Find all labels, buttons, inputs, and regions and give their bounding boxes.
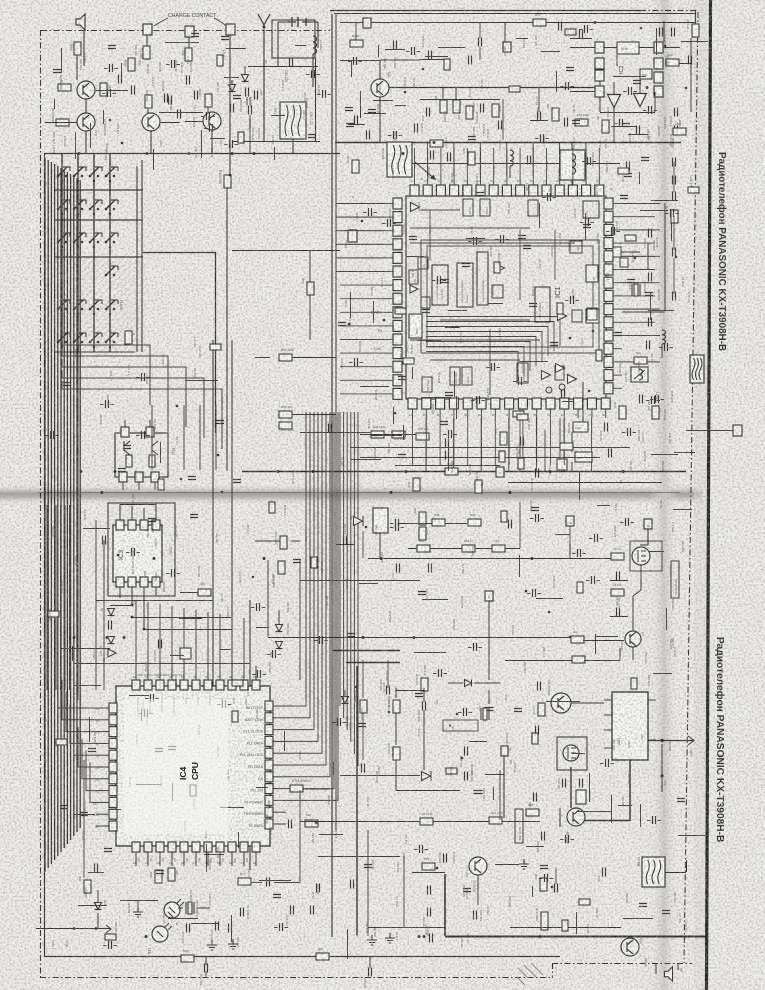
capacitor (texture z2k37): [492, 363, 495, 371]
corner hatch marks: [517, 963, 543, 985]
resistor R12: [278, 561, 285, 574]
capacitor C121: [429, 564, 432, 573]
fold seam line: [38, 492, 680, 494]
IC1 left feed full 8: [340, 298, 384, 300]
wire cluster top: [420, 99, 500, 101]
junction dot (z4k14): [217, 454, 220, 457]
IC1 box 10: [421, 297, 430, 308]
IC4 top pin 4: [168, 680, 176, 690]
ground G6: [385, 933, 395, 943]
left margin bus wire 4: [54, 164, 56, 860]
wire row y435: [360, 434, 416, 436]
IC1 internal wire 9: [554, 230, 556, 280]
IC1 bottom out wire 4: [508, 418, 510, 471]
wire rf h36: [355, 22, 357, 40]
IC1 block COMP: [555, 366, 564, 380]
wire stub v (z2k2): [350, 292, 352, 318]
svg-text:IC4: IC4: [178, 767, 188, 781]
capacitor (texture z5k34): [592, 576, 595, 584]
wire stub h (z6k25): [129, 695, 149, 697]
resistor R100k: [224, 175, 231, 188]
PN2 pin 1: [119, 472, 127, 482]
IC4 bottom pin 12: [132, 842, 140, 852]
pin box P2: [348, 230, 357, 242]
capacitor C36: [528, 156, 531, 165]
IC1 bottom out wire 3: [480, 418, 482, 471]
capacitor C56: [534, 793, 537, 802]
IC4 right wire 2: [286, 412, 310, 718]
capacitor (texture z1k46b): [622, 124, 630, 127]
capacitor (texture z7k26): [653, 816, 656, 824]
capacitor C74: [187, 924, 190, 933]
IC1 block DTC2: [463, 199, 473, 216]
wire right v674: [673, 162, 675, 192]
pin box P9: [733, 425, 742, 436]
keypad switch S12: [105, 241, 108, 244]
IC1 left pin 22: [393, 280, 402, 291]
IC4 left pin 27: [109, 750, 117, 760]
keypad switch S8: [105, 208, 108, 211]
pin box P10: [566, 516, 574, 526]
junction dot (z6k7): [315, 822, 318, 825]
IC4 right wire 5: [286, 412, 322, 753]
resistor R116: [540, 878, 547, 891]
wire stub h (z1k3): [541, 51, 560, 53]
PN2 wires top: [125, 420, 150, 427]
wire ic2 left pin: [570, 91, 595, 93]
crystal block X02: [560, 150, 585, 180]
IC1 left pin 26: [393, 334, 402, 345]
keypad switch S9: [57, 241, 60, 244]
keypad switch S14: [73, 308, 76, 311]
resistor R57b: [279, 422, 292, 429]
capacitor C110: [673, 192, 676, 201]
wire stub v (z7k41): [333, 762, 335, 775]
wire fold h637: [268, 637, 571, 639]
junction dot (z7k19): [388, 711, 391, 714]
IC1 top feed wire 4: [506, 142, 508, 176]
wire stub h (z7k10): [546, 701, 580, 703]
resistor R110: [500, 432, 507, 445]
wire bottom stub: [205, 957, 207, 965]
bus junction dot 15: [402, 152, 405, 155]
IC4 top pin 6: [192, 680, 200, 690]
wire right h310: [648, 310, 674, 312]
battery box right wire: [315, 58, 317, 142]
wire stub v (z7k4): [493, 787, 495, 800]
IC1 top feed full 13: [572, 148, 574, 176]
modulator triangle 3: [568, 375, 577, 384]
keypad switch S7: [89, 208, 92, 211]
IC1 left feed full 5: [340, 257, 384, 259]
keypad switch S2: [73, 175, 76, 178]
wire stub v (z4k1): [80, 509, 82, 521]
wire q8 emitter: [477, 875, 479, 905]
resistor (texture z2k15): [596, 350, 602, 361]
IC1 internal bus wire 7: [426, 347, 524, 377]
CPU top feed wire 9: [231, 616, 233, 666]
IC1 top pin 4: [450, 185, 459, 196]
page margin grey strip: [694, 0, 707, 990]
filter block CF1: [280, 102, 306, 139]
IC3 pin 5: [116, 577, 124, 587]
wire stub v (z1k17): [360, 91, 362, 118]
IC1 buffer triangle: [411, 203, 420, 212]
zener D12: [276, 642, 283, 649]
block L30: [557, 459, 567, 470]
right page top border corner: [695, 11, 697, 30]
bus junction dot 33: [263, 557, 266, 560]
resistor R42: [185, 48, 192, 61]
resistor (texture z2k25): [403, 358, 414, 364]
junction dot (z4k3): [221, 491, 224, 494]
resistor R61: [440, 100, 447, 113]
resistor (texture z1k6): [565, 29, 576, 35]
IC1 right out wire 2: [622, 229, 660, 231]
ground G3: [133, 907, 143, 917]
capacitor (texture z7k32b): [364, 865, 372, 868]
IC1 top pin 8: [502, 185, 511, 196]
aux bus y457: [360, 457, 600, 459]
keypad row wire 3: [62, 359, 186, 427]
IC1 top pin 3: [436, 185, 445, 196]
capacitor (texture z7k46): [420, 845, 423, 853]
wire stub v (z5k17): [666, 608, 668, 630]
capacitor (texture z3k28): [656, 395, 659, 403]
IC1 top pin 5: [463, 185, 472, 196]
wire left cluster2: [292, 414, 336, 416]
wire mesh v560: [559, 418, 561, 460]
IC1 left feed wire 3: [336, 230, 384, 232]
IC1 bottom drop full 7: [494, 418, 496, 465]
resistor R2k2: [571, 636, 584, 643]
wire bm v370: [369, 957, 371, 968]
IC1 bottom pin 60: [601, 398, 610, 409]
wire stub h (z0k6): [271, 115, 285, 117]
IC1 left pin 20: [393, 252, 402, 263]
capacitor (texture z4k35): [257, 603, 260, 611]
battery wires: [278, 22, 318, 66]
wire stub v (z7k18): [576, 912, 578, 934]
capacitor C107: [394, 41, 397, 50]
resistor R104: [350, 40, 363, 47]
IC1 bottom pin 47: [422, 398, 431, 409]
wire mesh v545: [544, 430, 546, 472]
IC1 block phase det: [492, 285, 503, 298]
wire stub v (z0k22): [121, 63, 123, 79]
capacitor (texture z3k9): [628, 428, 631, 436]
capacitor (texture z1k10): [566, 82, 569, 90]
junction dot (z4k19): [117, 554, 120, 557]
IC1 top feed wire 2: [453, 142, 455, 176]
IC4 right wire 1: [286, 412, 306, 706]
capacitor (texture z4k27b): [118, 469, 126, 472]
capacitor C63: [132, 86, 135, 95]
left page v-wire x104: [103, 540, 105, 690]
capacitor C68: [169, 96, 172, 105]
capacitor C112: [673, 292, 676, 301]
junction dot (z1k23): [422, 68, 425, 71]
IC3 junction dots: [131, 604, 134, 607]
IC1 right out wire 6: [622, 335, 660, 337]
IC1 bottom pin 56: [546, 398, 555, 409]
IC1 left feed full 9: [340, 311, 384, 313]
capacitor C27: [429, 51, 432, 60]
wire stub h (z5k11): [422, 599, 448, 601]
wire bl h882: [252, 882, 262, 884]
wire right area v2: [664, 203, 666, 310]
capacitor (texture z2k28b): [476, 193, 484, 196]
keypad column line 2: [77, 153, 79, 352]
MOSFET Q5: [632, 547, 650, 565]
IC1 left feed full 14: [340, 379, 384, 381]
IC1 bottom drop full 6: [481, 418, 483, 465]
junction dot (z7k8): [436, 867, 439, 870]
IC1 left pin 16: [393, 198, 402, 209]
IC1 right pin 38: [604, 290, 613, 301]
junction dot (z3k23): [675, 256, 678, 259]
IC4 top pin 9: [228, 680, 236, 690]
capacitor C88: [465, 772, 468, 781]
wire stub h (z1k31): [438, 47, 465, 49]
IC1 left feed full 1: [340, 203, 384, 205]
capacitor (texture z6k3b): [156, 871, 164, 874]
capacitor (texture z2k13b): [583, 225, 591, 228]
vertical wire x213: [212, 340, 214, 690]
wire stub v (z7k11): [589, 773, 591, 802]
outer dash-dot border left: [40, 30, 42, 977]
IC1 right out wire 4: [622, 282, 660, 284]
vertical wire x368: [367, 830, 369, 936]
capacitor C127: [603, 868, 606, 877]
capacitor (texture z6k36b): [273, 895, 281, 898]
wire bottom h927: [510, 927, 621, 929]
IC2 pin b: [654, 42, 663, 53]
keypad switch S1: [57, 175, 60, 178]
wire os h775: [340, 775, 420, 777]
left margin bus wire 3: [50, 162, 52, 864]
filter arrow: [415, 162, 436, 180]
IC4 right wire 9: [286, 412, 338, 800]
capacitor C94: [428, 886, 431, 895]
PN2 pin 2: [135, 472, 143, 482]
CPU top feed wire 4: [171, 606, 173, 666]
transistor Q2: [371, 79, 389, 97]
wire stub h (z5k5): [596, 636, 618, 638]
left riser wire 4: [199, 405, 201, 470]
IC4 top pin 10: [240, 680, 248, 690]
wire rf v539: [538, 88, 540, 112]
IC1 bottom drop full 2: [425, 418, 427, 465]
resistor R-KTM: [290, 785, 303, 792]
wire stub v (z1k1): [351, 61, 353, 77]
capacitor C93: [444, 854, 447, 863]
resistor (texture z3k13): [618, 168, 629, 174]
IC1 internal bus wire 6: [426, 342, 530, 372]
IC4 bottom pin 13: [144, 842, 152, 852]
keypad frame line B: [141, 160, 143, 352]
wire stub h (z4k29): [83, 528, 110, 530]
capacitor C34: [448, 153, 451, 162]
capacitor C30: [660, 28, 663, 37]
IC1 right out wire 7: [622, 361, 660, 363]
transistor Q14: [203, 112, 221, 130]
test wire TP: [36, 928, 110, 930]
capacitor (texture z4k5): [142, 373, 145, 381]
IC4 top pin 8: [216, 680, 224, 690]
wavy filter TA31: [690, 355, 704, 383]
left bus lower wire 5: [64, 505, 66, 690]
IC1 block DTC1: [480, 199, 490, 216]
IC1 inner shield rect: [421, 240, 599, 353]
IC1 block HYB MUTE: [517, 363, 528, 383]
pin box P24: [644, 519, 652, 529]
wire left cluster: [292, 357, 336, 359]
IC1 left feed wire 6: [336, 271, 384, 273]
resistor R12k: [541, 912, 548, 930]
wire stub h (z4k18): [185, 380, 218, 382]
capacitor C119: [344, 536, 347, 545]
capacitor (texture z7k15): [464, 708, 467, 716]
capacitor (texture z5k29): [626, 518, 629, 526]
IC1 top feed wire 6: [559, 142, 561, 176]
page border bus A: [331, 14, 333, 937]
diode D7: [108, 609, 115, 616]
wire mesh h465: [395, 465, 500, 467]
resistor (texture z0k16): [217, 55, 223, 66]
test point arrow: [106, 925, 111, 933]
wire stub h (z6k9): [319, 834, 343, 836]
resistor R87: [58, 84, 71, 91]
capacitor C32: [481, 104, 484, 113]
IC1 top feed wire 1: [427, 142, 429, 176]
keypad row wire 5: [62, 381, 222, 449]
IC1 top feed full 11: [546, 148, 548, 176]
wire R100 down: [226, 188, 228, 471]
resistor R15: [420, 818, 433, 825]
capacitor (texture z4k6): [172, 569, 175, 577]
keypad row wire 4: [62, 370, 204, 438]
pin box S2: [485, 591, 493, 601]
left bus lower wire 4: [60, 505, 62, 690]
capacitor (texture z5k25): [595, 534, 598, 542]
diode D14: [422, 772, 431, 781]
pin IC2 h: [595, 86, 604, 97]
PN2 pin 3: [151, 472, 159, 482]
resistor R18b: [575, 119, 588, 126]
wire stub v (z0k36): [274, 147, 276, 160]
capacitor (texture z6k33b): [155, 749, 163, 752]
resistor R24: [652, 406, 659, 419]
IC1 bottom drop full 3: [439, 418, 441, 465]
capacitor (texture z1k18): [394, 131, 397, 139]
IC1 block osc divider: [535, 287, 550, 322]
speaker wires: [655, 963, 657, 974]
IC1 block ATT: [570, 241, 582, 253]
capacitor (texture z0k19b): [53, 70, 61, 73]
transistor Q7: [625, 631, 641, 647]
wire stub v (z7k34): [611, 795, 613, 823]
wire stub h (z2k39): [406, 256, 424, 258]
IC1 top feed full 4: [453, 148, 455, 176]
capacitor (texture z4k34b): [188, 477, 196, 480]
capacitor C103: [415, 124, 418, 133]
wire stub h (z6k27): [204, 854, 224, 856]
wire fold v520b: [519, 502, 521, 548]
left margin bus wire 9: [70, 174, 72, 840]
wire xtal: [178, 907, 183, 909]
bus junction dot 0: [253, 152, 256, 155]
wire top stub: [504, 22, 506, 42]
IC4 right wire 7: [286, 412, 330, 777]
wire S2b: [569, 526, 571, 558]
wire fold h523: [398, 523, 432, 525]
capacitor (texture z1k42b): [345, 108, 353, 111]
fuse F1: [373, 508, 388, 533]
capacitor C97: [430, 934, 433, 943]
capacitor C72: [241, 908, 244, 917]
top right wire: [470, 22, 695, 24]
resistor (texture z2k35): [513, 411, 524, 417]
IC1 box GX01: [586, 309, 599, 323]
capacitor (texture z4k11): [142, 431, 145, 439]
resistor R56b: [279, 411, 292, 418]
wire stub v (z3k16): [650, 292, 652, 320]
IC2 pin c: [654, 58, 663, 69]
bus junction dot 12: [78, 152, 81, 155]
capacitor (texture z6k43b): [60, 806, 68, 809]
resistor R53: [462, 545, 475, 552]
resistor (texture z4k38): [48, 611, 59, 617]
junction dot (z5k18): [569, 636, 572, 639]
junction dot (z3k22): [634, 257, 637, 260]
MOSFET Q5 dashed box: [630, 541, 662, 571]
keypad switch S18: [73, 341, 76, 344]
IC1 bottom pin 49: [449, 398, 458, 409]
capacitor (texture z7k9b): [662, 911, 670, 914]
wire stub h (z1k40): [611, 126, 636, 128]
wire osc v424: [423, 688, 425, 702]
capacitor C53: [255, 91, 258, 100]
wire pin56 down: [503, 756, 505, 818]
wire bl h927b: [368, 927, 445, 929]
capacitor (texture z1k13b): [468, 137, 476, 140]
wire stub v (z6k22): [238, 832, 240, 848]
inductor L9: [662, 330, 666, 344]
diode D15: [342, 697, 349, 704]
resistor R18: [468, 152, 475, 165]
IC1 right out full 6: [622, 269, 655, 271]
wire stub v (z6k40): [206, 844, 208, 872]
capacitor C117: [609, 449, 612, 458]
capacitor (texture z0k5): [210, 124, 213, 132]
left bus lower wire 2: [51, 505, 53, 690]
capacitor (texture z7k45): [606, 759, 609, 767]
wire stub v (z0k32): [90, 123, 92, 148]
IC1 internal bus wire 1: [426, 317, 560, 347]
page edge heavy line: [707, 0, 711, 990]
IC1 buffer triangle C: [558, 312, 567, 321]
PN2 transistor Q24a: [124, 441, 130, 455]
IC4 bottom pin 16: [180, 842, 188, 852]
transistor Q11: [77, 81, 95, 99]
wire Q2 up: [379, 60, 381, 79]
wire left v268: [267, 560, 269, 637]
bus junction dot 10: [413, 636, 416, 639]
IC1 block TX VCO: [583, 201, 599, 218]
capacitor (texture z1k47b): [566, 68, 574, 71]
wire stub h (z2k77): [371, 435, 402, 437]
